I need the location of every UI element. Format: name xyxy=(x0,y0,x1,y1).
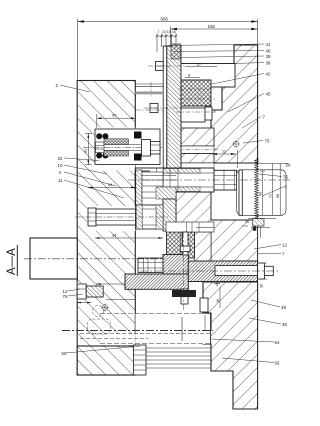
top cap box xyxy=(181,64,235,88)
dim chain line xyxy=(157,35,176,37)
svg-text:40: 40 xyxy=(216,299,220,303)
gear mesh white band xyxy=(170,146,214,154)
washer dim ticks xyxy=(196,227,214,229)
svg-text:10: 10 xyxy=(167,30,171,34)
thread coil top xyxy=(104,139,129,145)
leader 11 xyxy=(64,180,124,198)
svg-text:12: 12 xyxy=(222,150,226,154)
cartridge inner lines xyxy=(104,143,145,145)
lower plate column xyxy=(163,199,176,231)
seal ring top-left b xyxy=(102,133,108,139)
leader 75 xyxy=(243,141,263,144)
svg-text:54: 54 xyxy=(108,182,113,187)
chain ext lines xyxy=(156,34,158,53)
svg-text:34: 34 xyxy=(112,233,117,238)
wall edge through frame region xyxy=(257,163,259,220)
svg-text:10: 10 xyxy=(162,30,166,34)
housing right wall upper xyxy=(211,45,258,163)
spring guide rod xyxy=(239,170,242,215)
svg-text:62: 62 xyxy=(83,148,88,153)
key block in band xyxy=(151,176,158,185)
rack ladder at block edge xyxy=(133,345,146,375)
housing right wall wrap above upper shaft row2 xyxy=(170,154,214,164)
tick cross at hub corner xyxy=(214,283,220,285)
coupling shaft flange xyxy=(88,208,96,226)
spring coil xyxy=(255,158,259,222)
leader 76g xyxy=(68,294,83,296)
hub small dim arrows top xyxy=(242,225,248,227)
vertical dim 62 at cartridge left xyxy=(87,133,89,165)
dim 155 line xyxy=(171,28,258,30)
svg-text:98: 98 xyxy=(276,194,280,198)
svg-text:30: 30 xyxy=(260,284,264,288)
shaft left step xyxy=(135,171,149,189)
arrowheads top dims xyxy=(78,20,84,22)
input shaft left xyxy=(30,238,77,279)
svg-text:38: 38 xyxy=(266,61,271,66)
bolt head lower xyxy=(150,104,158,113)
svg-text:15: 15 xyxy=(196,62,201,67)
thread coil bottom xyxy=(104,150,129,156)
svg-text:40: 40 xyxy=(259,192,263,196)
bolt hex head xyxy=(96,142,105,153)
cap dim 8 xyxy=(185,77,200,79)
bore inner step xyxy=(181,317,183,341)
leader 36 xyxy=(249,318,281,324)
lower shaft band through wall xyxy=(188,261,257,282)
pipe axis cross xyxy=(150,82,152,97)
bolt head mid xyxy=(180,246,190,252)
thin clamp plate xyxy=(163,46,167,168)
dim 54 in block xyxy=(88,187,136,189)
leader 10 xyxy=(64,165,107,174)
svg-text:42: 42 xyxy=(266,72,271,77)
leader 38 cap edge xyxy=(235,63,264,64)
bolt head upper xyxy=(156,62,164,71)
small block right of spacer xyxy=(205,107,212,120)
svg-text:56: 56 xyxy=(275,361,280,366)
dim ticks xyxy=(260,170,265,172)
detail frame xyxy=(237,170,286,216)
lower shaft left segments xyxy=(138,258,163,273)
seal ring bottom-right xyxy=(134,154,142,161)
svg-text:16: 16 xyxy=(172,30,176,34)
gland body xyxy=(86,286,103,297)
leader 41 xyxy=(167,44,264,46)
svg-text:22: 22 xyxy=(58,156,63,161)
washer row band xyxy=(166,222,214,232)
phantom gear rect xyxy=(88,319,111,334)
seal ring top-left a xyxy=(96,133,102,139)
diaphragm gray gasket xyxy=(135,92,163,95)
seal ring top-right xyxy=(134,132,142,139)
lower speckle block right xyxy=(188,232,195,258)
plate top speckle block xyxy=(171,44,181,59)
lower shaft core xyxy=(215,266,258,276)
svg-text:155: 155 xyxy=(208,24,216,29)
svg-text:76: 76 xyxy=(283,175,288,180)
svg-text:11: 11 xyxy=(58,178,63,183)
bore white area xyxy=(135,314,210,345)
lower shaft axis xyxy=(140,270,278,272)
cap axis xyxy=(176,111,216,113)
cap dim 15 xyxy=(185,66,217,68)
lower gear hub flange xyxy=(125,274,188,289)
leader 12g xyxy=(68,289,80,291)
lower speckle block left xyxy=(167,232,182,258)
pocket for seal cartridge xyxy=(95,128,135,171)
housing left wall block xyxy=(77,81,135,376)
splined hub hatch piece xyxy=(156,187,176,199)
shaft end journal xyxy=(264,266,273,275)
dash-dot above cartridge xyxy=(136,109,164,111)
svg-text:41: 41 xyxy=(266,42,271,47)
target mark circle xyxy=(233,141,239,147)
ext line mid xyxy=(170,27,172,47)
pocket for gland xyxy=(77,283,91,300)
flange dim xyxy=(96,283,135,285)
ext line right xyxy=(257,19,259,45)
housing lower-left hatch under bore xyxy=(77,346,135,375)
seal ring bottom-left b xyxy=(102,153,108,159)
leader 49 xyxy=(251,300,280,307)
bore dashed bottom xyxy=(100,343,211,345)
leader 56 xyxy=(222,358,274,363)
pocket for coupling xyxy=(87,206,135,231)
white sliver above shaft xyxy=(170,163,214,168)
leader 12 xyxy=(254,245,281,250)
leader 39 xyxy=(181,56,264,58)
svg-text:36: 36 xyxy=(282,322,287,327)
svg-text:7: 7 xyxy=(158,30,160,34)
dim 95 above pocket xyxy=(97,117,136,119)
svg-text:606: 606 xyxy=(161,17,169,22)
gland dim arrows xyxy=(77,302,91,304)
lamination lines xyxy=(146,347,211,349)
svg-text:76: 76 xyxy=(63,294,68,299)
left bore axis xyxy=(24,258,162,260)
small bolt lower right xyxy=(200,298,208,312)
spring pack axes xyxy=(178,88,214,90)
leader 50 xyxy=(66,346,140,353)
leader 7 xyxy=(242,117,261,129)
housing right wall wrap above upper shaft row1 xyxy=(170,128,214,146)
anchor dim ticks xyxy=(251,227,270,229)
gland dim 2 xyxy=(106,299,135,301)
housing right wall lower xyxy=(203,282,258,409)
diaphragm pipe lines xyxy=(135,83,163,85)
upper shaft axis xyxy=(128,179,292,181)
bore step 2 xyxy=(204,315,206,330)
leader 4 xyxy=(64,172,116,186)
bolt head below (dark) xyxy=(172,290,196,297)
coupling sleeve hatched band left xyxy=(136,205,142,229)
leader 40 xyxy=(174,51,264,52)
leader 42 xyxy=(212,74,264,85)
svg-text:72: 72 xyxy=(268,194,272,198)
svg-text:75: 75 xyxy=(265,139,270,144)
coupling sleeve hatched band right xyxy=(156,205,163,229)
leader 7b xyxy=(257,253,281,255)
svg-text:40: 40 xyxy=(266,49,271,54)
bottom bore axis xyxy=(62,330,213,332)
shaft segment division lines xyxy=(156,168,158,192)
svg-text:58: 58 xyxy=(286,163,291,168)
splined hub xyxy=(142,172,163,205)
bore outline right edge xyxy=(210,313,212,345)
coupling axis xyxy=(75,216,170,218)
dim line vertical 2 xyxy=(271,164,273,216)
phantom circle xyxy=(93,306,104,317)
coupling mid window xyxy=(142,209,156,225)
leader 76 spring xyxy=(259,174,282,177)
spring anchor bottom (hatched) xyxy=(253,219,265,227)
bolt above hub shank xyxy=(183,232,189,255)
chain oblique ticks xyxy=(156,35,158,37)
dim 606 line xyxy=(78,21,258,23)
shaft inner lines xyxy=(135,172,214,174)
leader 2 xyxy=(60,85,90,92)
cartridge right bore xyxy=(151,142,161,155)
shaft body xyxy=(135,168,214,192)
thick clamp plate crosshatched xyxy=(167,46,181,168)
vertical dim in lower block xyxy=(219,287,221,308)
svg-text:50: 50 xyxy=(62,351,67,356)
dim top horizontal xyxy=(255,163,288,165)
bolt axis horizontal upper xyxy=(148,65,186,67)
left labels xyxy=(56,83,68,356)
gland head xyxy=(77,284,86,299)
dim 34 under coupling xyxy=(95,237,163,239)
svg-text:10: 10 xyxy=(58,163,63,168)
cartridge bore centerline xyxy=(83,146,162,148)
seal ring bottom-left a xyxy=(96,153,102,159)
circled cross mark xyxy=(102,305,108,311)
svg-text:12: 12 xyxy=(282,243,287,248)
leader 22 xyxy=(64,158,99,161)
spacer under spring pack xyxy=(181,108,205,122)
wall fill right of bolt xyxy=(195,232,212,261)
shaft right extension xyxy=(214,170,237,190)
shaft hatched key top xyxy=(163,169,200,174)
leader 45 xyxy=(228,94,264,113)
shaft end cap xyxy=(258,263,265,279)
end cap dim ticks xyxy=(261,262,267,264)
bore dashed top xyxy=(100,313,211,315)
shaft hatched key bottom xyxy=(163,187,200,192)
gear mesh band axis xyxy=(166,149,218,151)
bolt axis horizontal lower xyxy=(144,107,186,109)
dim line vertical 1 xyxy=(262,171,264,215)
cartridge sleeve xyxy=(95,129,160,165)
cartridge right step xyxy=(142,140,151,157)
coupling sleeve xyxy=(136,205,164,229)
right labels xyxy=(263,42,291,366)
gear rim strip xyxy=(136,170,142,205)
bore dashed inner pair xyxy=(80,333,211,335)
svg-text:39: 39 xyxy=(266,54,271,59)
ext line left xyxy=(77,19,79,81)
dim line vertical 3 xyxy=(279,164,281,216)
leader 58 slope xyxy=(262,186,287,197)
pocket lower bore xyxy=(100,334,135,345)
svg-text:45: 45 xyxy=(266,92,271,97)
svg-text:A—A: A—A xyxy=(6,248,18,275)
svg-text:10: 10 xyxy=(245,220,249,224)
svg-text:49: 49 xyxy=(281,305,286,310)
leader 54 xyxy=(212,339,274,342)
svg-text:~: ~ xyxy=(285,186,288,191)
spring pack block xyxy=(181,80,211,106)
wall cut dim xyxy=(212,153,236,155)
A-A underline xyxy=(16,245,18,276)
lower bolt axis vertical xyxy=(183,232,185,312)
housing right wall wrap below upper shaft xyxy=(176,192,258,261)
lower gear hub neck xyxy=(163,255,188,275)
svg-text:95: 95 xyxy=(112,113,117,118)
bolt below hub shank xyxy=(181,289,188,304)
coupling shaft body xyxy=(96,209,136,225)
svg-text:54: 54 xyxy=(275,340,280,345)
svg-text:8: 8 xyxy=(188,74,190,78)
